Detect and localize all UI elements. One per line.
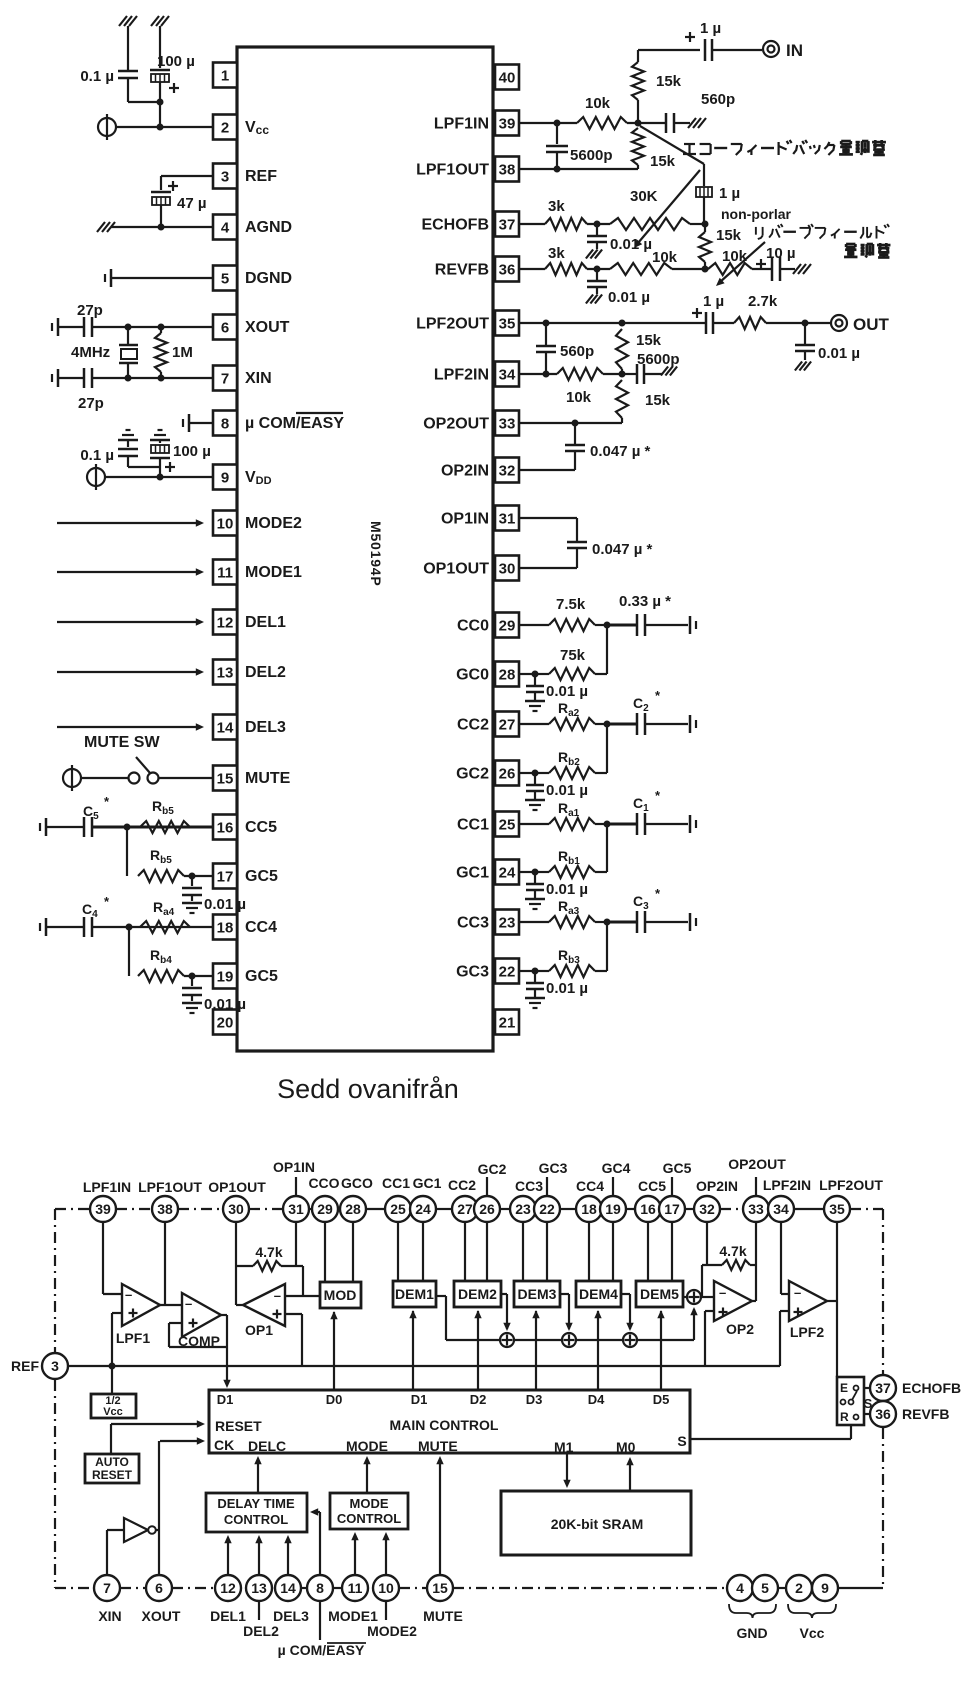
svg-text:LPF2OUT: LPF2OUT: [416, 315, 489, 332]
svg-text:2: 2: [221, 119, 229, 136]
svg-text:10 µ: 10 µ: [766, 245, 796, 262]
svg-text:ECHOFB: ECHOFB: [902, 1380, 961, 1396]
svg-text:OP1IN: OP1IN: [273, 1159, 315, 1175]
svg-text:DEL3: DEL3: [273, 1608, 309, 1624]
svg-text:CC5: CC5: [638, 1178, 666, 1194]
svg-text:REVFB: REVFB: [902, 1406, 949, 1422]
svg-text:560p: 560p: [701, 91, 735, 108]
svg-text:40: 40: [499, 69, 516, 86]
svg-text:0.1 µ: 0.1 µ: [80, 68, 114, 85]
svg-text:DEM1: DEM1: [395, 1286, 434, 1302]
svg-text:CC4: CC4: [245, 919, 277, 936]
svg-text:CC1: CC1: [382, 1175, 410, 1191]
svg-text:0.01 µ: 0.01 µ: [546, 782, 588, 799]
svg-text:27: 27: [457, 1201, 473, 1217]
svg-text:GC1: GC1: [413, 1175, 442, 1191]
svg-text:CCO: CCO: [308, 1175, 339, 1191]
svg-text:27: 27: [499, 716, 516, 733]
svg-text:µ COM/EASY: µ COM/EASY: [245, 415, 344, 432]
svg-text:XIN: XIN: [245, 370, 272, 387]
svg-text:0.01 µ: 0.01 µ: [204, 996, 246, 1013]
svg-text:12: 12: [220, 1580, 236, 1596]
svg-text:28: 28: [499, 666, 516, 683]
svg-text:CONTROL: CONTROL: [224, 1512, 288, 1527]
svg-text:MODE: MODE: [346, 1438, 388, 1454]
svg-text:S: S: [677, 1433, 686, 1449]
svg-text:AGND: AGND: [245, 219, 292, 236]
svg-text:0.01 µ: 0.01 µ: [610, 236, 652, 253]
svg-text:LPF1: LPF1: [116, 1330, 150, 1346]
svg-text:GND: GND: [736, 1625, 767, 1641]
svg-text:15k: 15k: [716, 227, 742, 244]
svg-text:20K-bit SRAM: 20K-bit SRAM: [551, 1516, 644, 1532]
svg-text:DEL2: DEL2: [245, 664, 286, 681]
svg-text:CC2: CC2: [457, 716, 489, 733]
svg-text:LPF1IN: LPF1IN: [83, 1179, 131, 1195]
svg-text:IN: IN: [786, 41, 803, 60]
svg-text:37: 37: [499, 216, 516, 233]
svg-text:5600p: 5600p: [637, 351, 680, 368]
svg-text:22: 22: [499, 963, 516, 980]
svg-text:OUT: OUT: [853, 315, 890, 334]
svg-text:39: 39: [499, 115, 516, 132]
svg-text:13: 13: [217, 664, 234, 681]
svg-text:37: 37: [875, 1380, 891, 1396]
svg-text:OP2IN: OP2IN: [696, 1178, 738, 1194]
svg-text:17: 17: [664, 1201, 680, 1217]
svg-text:CC1: CC1: [457, 816, 489, 833]
svg-text:D0: D0: [326, 1392, 343, 1407]
svg-text:19: 19: [605, 1201, 621, 1217]
svg-text:MUTE: MUTE: [245, 770, 291, 787]
svg-text:–: –: [274, 1288, 281, 1303]
svg-text:1M: 1M: [172, 344, 193, 361]
svg-text:M1: M1: [554, 1439, 574, 1455]
svg-text:7.5k: 7.5k: [556, 596, 586, 613]
svg-text:OP2IN: OP2IN: [441, 462, 489, 479]
svg-text:R: R: [840, 1410, 849, 1424]
svg-text:39: 39: [95, 1201, 111, 1217]
svg-text:0.1 µ: 0.1 µ: [80, 447, 114, 464]
svg-text:GC5: GC5: [245, 868, 278, 885]
svg-text:GC2: GC2: [478, 1161, 507, 1177]
svg-text:AUTO: AUTO: [95, 1455, 129, 1469]
svg-text:0.01 µ: 0.01 µ: [204, 896, 246, 913]
svg-text:LPF2IN: LPF2IN: [763, 1177, 811, 1193]
svg-text:21: 21: [499, 1014, 516, 1031]
svg-text:32: 32: [499, 462, 516, 479]
svg-text:33: 33: [748, 1201, 764, 1217]
svg-text:29: 29: [499, 617, 516, 634]
svg-text:GC3: GC3: [456, 963, 489, 980]
svg-text:1 µ: 1 µ: [700, 20, 721, 37]
svg-text:0.01 µ: 0.01 µ: [546, 881, 588, 898]
svg-text:MUTE: MUTE: [423, 1608, 463, 1624]
svg-text:34: 34: [499, 366, 516, 383]
svg-text:2.7k: 2.7k: [748, 293, 778, 310]
svg-text:17: 17: [217, 868, 234, 885]
svg-text:OP2OUT: OP2OUT: [728, 1156, 786, 1172]
svg-text:100 µ: 100 µ: [173, 443, 211, 460]
svg-text:9: 9: [221, 469, 229, 486]
svg-text:LPF2OUT: LPF2OUT: [819, 1177, 883, 1193]
svg-text:GC5: GC5: [245, 968, 278, 985]
svg-text:CONTROL: CONTROL: [337, 1511, 401, 1526]
svg-text:11: 11: [348, 1580, 363, 1596]
svg-text:DEM4: DEM4: [579, 1286, 618, 1302]
svg-text:DELC: DELC: [248, 1438, 286, 1454]
svg-text:1: 1: [221, 67, 229, 84]
svg-text:non-porlar: non-porlar: [721, 206, 792, 222]
svg-text:15: 15: [432, 1580, 448, 1596]
svg-text:47 µ: 47 µ: [177, 195, 207, 212]
svg-text:34: 34: [773, 1201, 789, 1217]
svg-text:CK: CK: [214, 1437, 234, 1453]
svg-text:15k: 15k: [650, 153, 676, 170]
svg-text:DEM3: DEM3: [518, 1286, 557, 1302]
svg-text:–: –: [185, 1296, 192, 1311]
svg-text:5: 5: [221, 270, 229, 287]
svg-text:D1: D1: [411, 1392, 428, 1407]
svg-text:16: 16: [217, 819, 234, 836]
svg-text:26: 26: [499, 765, 516, 782]
svg-text:10: 10: [217, 515, 234, 532]
svg-text:XIN: XIN: [98, 1608, 121, 1624]
svg-text:ECHOFB: ECHOFB: [421, 216, 489, 233]
svg-text:3: 3: [221, 168, 229, 185]
svg-text:CC0: CC0: [457, 617, 489, 634]
svg-text:23: 23: [499, 914, 516, 931]
svg-text:GC4: GC4: [602, 1160, 631, 1176]
svg-text:38: 38: [499, 161, 516, 178]
svg-text:OP2OUT: OP2OUT: [423, 415, 489, 432]
svg-text:DEL2: DEL2: [243, 1623, 279, 1639]
svg-text:MODE2: MODE2: [245, 515, 302, 532]
svg-text:DEM2: DEM2: [458, 1286, 497, 1302]
svg-text:OP1IN: OP1IN: [441, 510, 489, 527]
svg-text:XOUT: XOUT: [245, 319, 290, 336]
svg-text:13: 13: [251, 1580, 267, 1596]
svg-text:4.7k: 4.7k: [255, 1244, 282, 1260]
svg-text:18: 18: [581, 1201, 597, 1217]
svg-text:15k: 15k: [636, 332, 662, 349]
svg-text:32: 32: [699, 1201, 715, 1217]
svg-text:31: 31: [499, 510, 516, 527]
svg-text:30K: 30K: [630, 188, 658, 205]
svg-text:27p: 27p: [78, 395, 104, 412]
svg-text:16: 16: [640, 1201, 656, 1217]
svg-text:GC2: GC2: [456, 765, 489, 782]
svg-text:10k: 10k: [652, 249, 678, 266]
svg-text:29: 29: [317, 1201, 333, 1217]
svg-text:CC3: CC3: [457, 914, 489, 931]
svg-text:RESET: RESET: [92, 1468, 133, 1482]
svg-text:4MHz: 4MHz: [71, 344, 110, 361]
svg-text:3k: 3k: [548, 245, 565, 262]
svg-text:0.01 µ: 0.01 µ: [546, 683, 588, 700]
svg-text:14: 14: [280, 1580, 296, 1596]
svg-text:26: 26: [479, 1201, 495, 1217]
svg-text:75k: 75k: [560, 647, 586, 664]
svg-text:10k: 10k: [566, 389, 592, 406]
svg-text:–: –: [719, 1285, 726, 1300]
svg-text:REF: REF: [245, 168, 277, 185]
svg-text:Sedd ovanifrån: Sedd ovanifrån: [277, 1074, 459, 1104]
svg-text:LPF2: LPF2: [790, 1324, 824, 1340]
svg-text:GCO: GCO: [341, 1175, 373, 1191]
svg-text:DELAY TIME: DELAY TIME: [217, 1496, 295, 1511]
svg-text:XOUT: XOUT: [142, 1608, 181, 1624]
svg-text:LPF1IN: LPF1IN: [434, 115, 489, 132]
svg-text:GC1: GC1: [456, 864, 489, 881]
svg-text:4.7k: 4.7k: [719, 1243, 746, 1259]
svg-text:0.047 µ *: 0.047 µ *: [590, 443, 651, 460]
svg-text:4: 4: [736, 1580, 744, 1596]
svg-text:7: 7: [103, 1580, 111, 1596]
svg-text:25: 25: [499, 816, 516, 833]
svg-text:2: 2: [795, 1580, 803, 1596]
svg-text:6: 6: [221, 319, 229, 336]
svg-text:MUTE SW: MUTE SW: [84, 734, 160, 751]
svg-text:33: 33: [499, 415, 516, 432]
svg-text:D3: D3: [526, 1392, 543, 1407]
svg-text:15k: 15k: [656, 73, 682, 90]
svg-text:CC4: CC4: [576, 1178, 604, 1194]
svg-text:D2: D2: [470, 1392, 487, 1407]
svg-text:D4: D4: [588, 1392, 605, 1407]
svg-text:3k: 3k: [548, 198, 565, 215]
svg-text:8: 8: [221, 415, 229, 432]
svg-text:4: 4: [221, 219, 230, 236]
svg-text:µ COM/EASY: µ COM/EASY: [278, 1642, 365, 1658]
svg-text:6: 6: [155, 1580, 163, 1596]
svg-text:GC5: GC5: [663, 1160, 692, 1176]
svg-text:D5: D5: [653, 1392, 670, 1407]
svg-text:DEL3: DEL3: [245, 719, 286, 736]
svg-text:560p: 560p: [560, 343, 594, 360]
svg-text:DEL1: DEL1: [210, 1608, 246, 1624]
svg-text:0.01 µ: 0.01 µ: [546, 980, 588, 997]
svg-text:35: 35: [499, 315, 516, 332]
svg-text:MODE1: MODE1: [328, 1608, 378, 1624]
svg-text:CC3: CC3: [515, 1178, 543, 1194]
svg-text:8: 8: [316, 1580, 324, 1596]
svg-text:MODE: MODE: [350, 1496, 389, 1511]
svg-text:5: 5: [761, 1580, 769, 1596]
svg-text:D1: D1: [217, 1392, 234, 1407]
svg-text:25: 25: [390, 1201, 406, 1217]
svg-text:OP2: OP2: [726, 1321, 754, 1337]
svg-text:LPF2IN: LPF2IN: [434, 366, 489, 383]
svg-text:OP1OUT: OP1OUT: [423, 560, 489, 577]
svg-text:OP1OUT: OP1OUT: [208, 1179, 266, 1195]
svg-text:22: 22: [539, 1201, 555, 1217]
svg-text:36: 36: [499, 261, 516, 278]
svg-text:0.047 µ *: 0.047 µ *: [592, 541, 653, 558]
svg-text:28: 28: [345, 1201, 361, 1217]
svg-text:REF: REF: [11, 1358, 39, 1374]
svg-text:5600p: 5600p: [570, 147, 613, 164]
svg-text:23: 23: [515, 1201, 531, 1217]
svg-text:0.33 µ *: 0.33 µ *: [619, 593, 671, 610]
svg-text:1 µ: 1 µ: [719, 185, 740, 202]
svg-text:24: 24: [415, 1201, 431, 1217]
svg-text:31: 31: [288, 1201, 304, 1217]
svg-text:RESET: RESET: [215, 1418, 262, 1434]
svg-text:MUTE: MUTE: [418, 1438, 458, 1454]
svg-text:CC5: CC5: [245, 819, 277, 836]
svg-text:REVFB: REVFB: [435, 261, 489, 278]
svg-text:DEL1: DEL1: [245, 614, 286, 631]
svg-text:38: 38: [157, 1201, 173, 1217]
svg-text:MODE1: MODE1: [245, 564, 302, 581]
svg-text:11: 11: [217, 564, 233, 581]
svg-text:30: 30: [228, 1201, 244, 1217]
svg-text:18: 18: [217, 919, 234, 936]
svg-text:E: E: [840, 1381, 848, 1395]
svg-text:24: 24: [499, 864, 516, 881]
svg-text:GC0: GC0: [456, 666, 489, 683]
svg-text:–: –: [794, 1285, 801, 1300]
svg-text:10k: 10k: [722, 248, 748, 265]
svg-text:19: 19: [217, 968, 234, 985]
svg-text:1 µ: 1 µ: [703, 293, 724, 310]
svg-text:27p: 27p: [77, 302, 103, 319]
svg-text:14: 14: [217, 719, 234, 736]
svg-text:30: 30: [499, 560, 516, 577]
svg-text:9: 9: [821, 1580, 829, 1596]
svg-text:MODE2: MODE2: [367, 1623, 417, 1639]
svg-text:0.01 µ: 0.01 µ: [818, 345, 860, 362]
svg-text:CC2: CC2: [448, 1177, 476, 1193]
svg-text:36: 36: [875, 1406, 891, 1422]
svg-text:LPF1OUT: LPF1OUT: [416, 161, 489, 178]
svg-text:3: 3: [51, 1358, 59, 1374]
svg-text:12: 12: [217, 614, 234, 631]
svg-text:100 µ: 100 µ: [157, 53, 195, 70]
svg-text:15: 15: [217, 770, 234, 787]
svg-text:Vcc: Vcc: [800, 1625, 825, 1641]
svg-text:7: 7: [221, 370, 229, 387]
svg-text:LPF1OUT: LPF1OUT: [138, 1179, 202, 1195]
svg-text:DEM5: DEM5: [640, 1286, 679, 1302]
svg-text:GC3: GC3: [539, 1160, 568, 1176]
svg-text:M50194P: M50194P: [368, 521, 384, 587]
svg-text:DGND: DGND: [245, 270, 292, 287]
svg-text:10k: 10k: [585, 95, 611, 112]
svg-text:10: 10: [378, 1580, 394, 1596]
svg-text:35: 35: [829, 1201, 845, 1217]
svg-text:0.01 µ: 0.01 µ: [608, 289, 650, 306]
svg-text:M0: M0: [616, 1439, 636, 1455]
svg-text:20: 20: [217, 1014, 234, 1031]
svg-text:–: –: [125, 1287, 132, 1302]
svg-text:OP1: OP1: [245, 1322, 273, 1338]
svg-text:Vcc: Vcc: [103, 1406, 123, 1418]
svg-text:15k: 15k: [645, 392, 671, 409]
svg-text:MAIN CONTROL: MAIN CONTROL: [390, 1417, 499, 1433]
svg-text:MOD: MOD: [324, 1287, 357, 1303]
